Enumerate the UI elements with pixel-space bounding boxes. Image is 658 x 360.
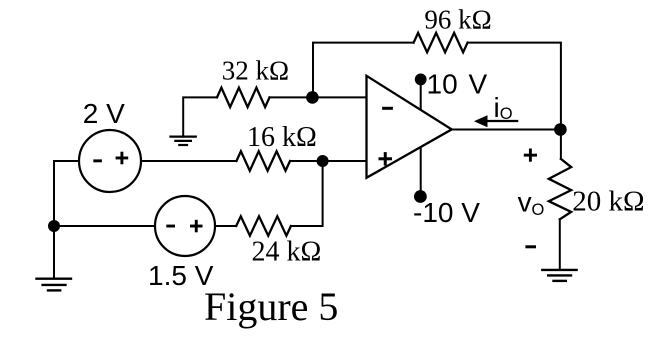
svg-text:20 kΩ: 20 kΩ [572, 186, 644, 218]
svg-text:24 kΩ: 24 kΩ [252, 237, 322, 268]
svg-text:O: O [500, 105, 513, 123]
svg-text:2 V: 2 V [83, 98, 125, 129]
svg-text:32 kΩ: 32 kΩ [222, 55, 289, 85]
svg-text:i: i [494, 92, 500, 123]
svg-text:16 kΩ: 16 kΩ [247, 122, 317, 153]
svg-text:-10 V: -10 V [413, 197, 480, 228]
svg-text:Figure 5: Figure 5 [204, 284, 338, 329]
svg-text:V: V [469, 68, 488, 99]
svg-text:10: 10 [427, 68, 458, 99]
svg-text:v: v [518, 187, 532, 218]
svg-text:96 kΩ: 96 kΩ [424, 5, 491, 35]
svg-text:1.5 V: 1.5 V [148, 260, 214, 291]
svg-text:O: O [532, 201, 545, 219]
